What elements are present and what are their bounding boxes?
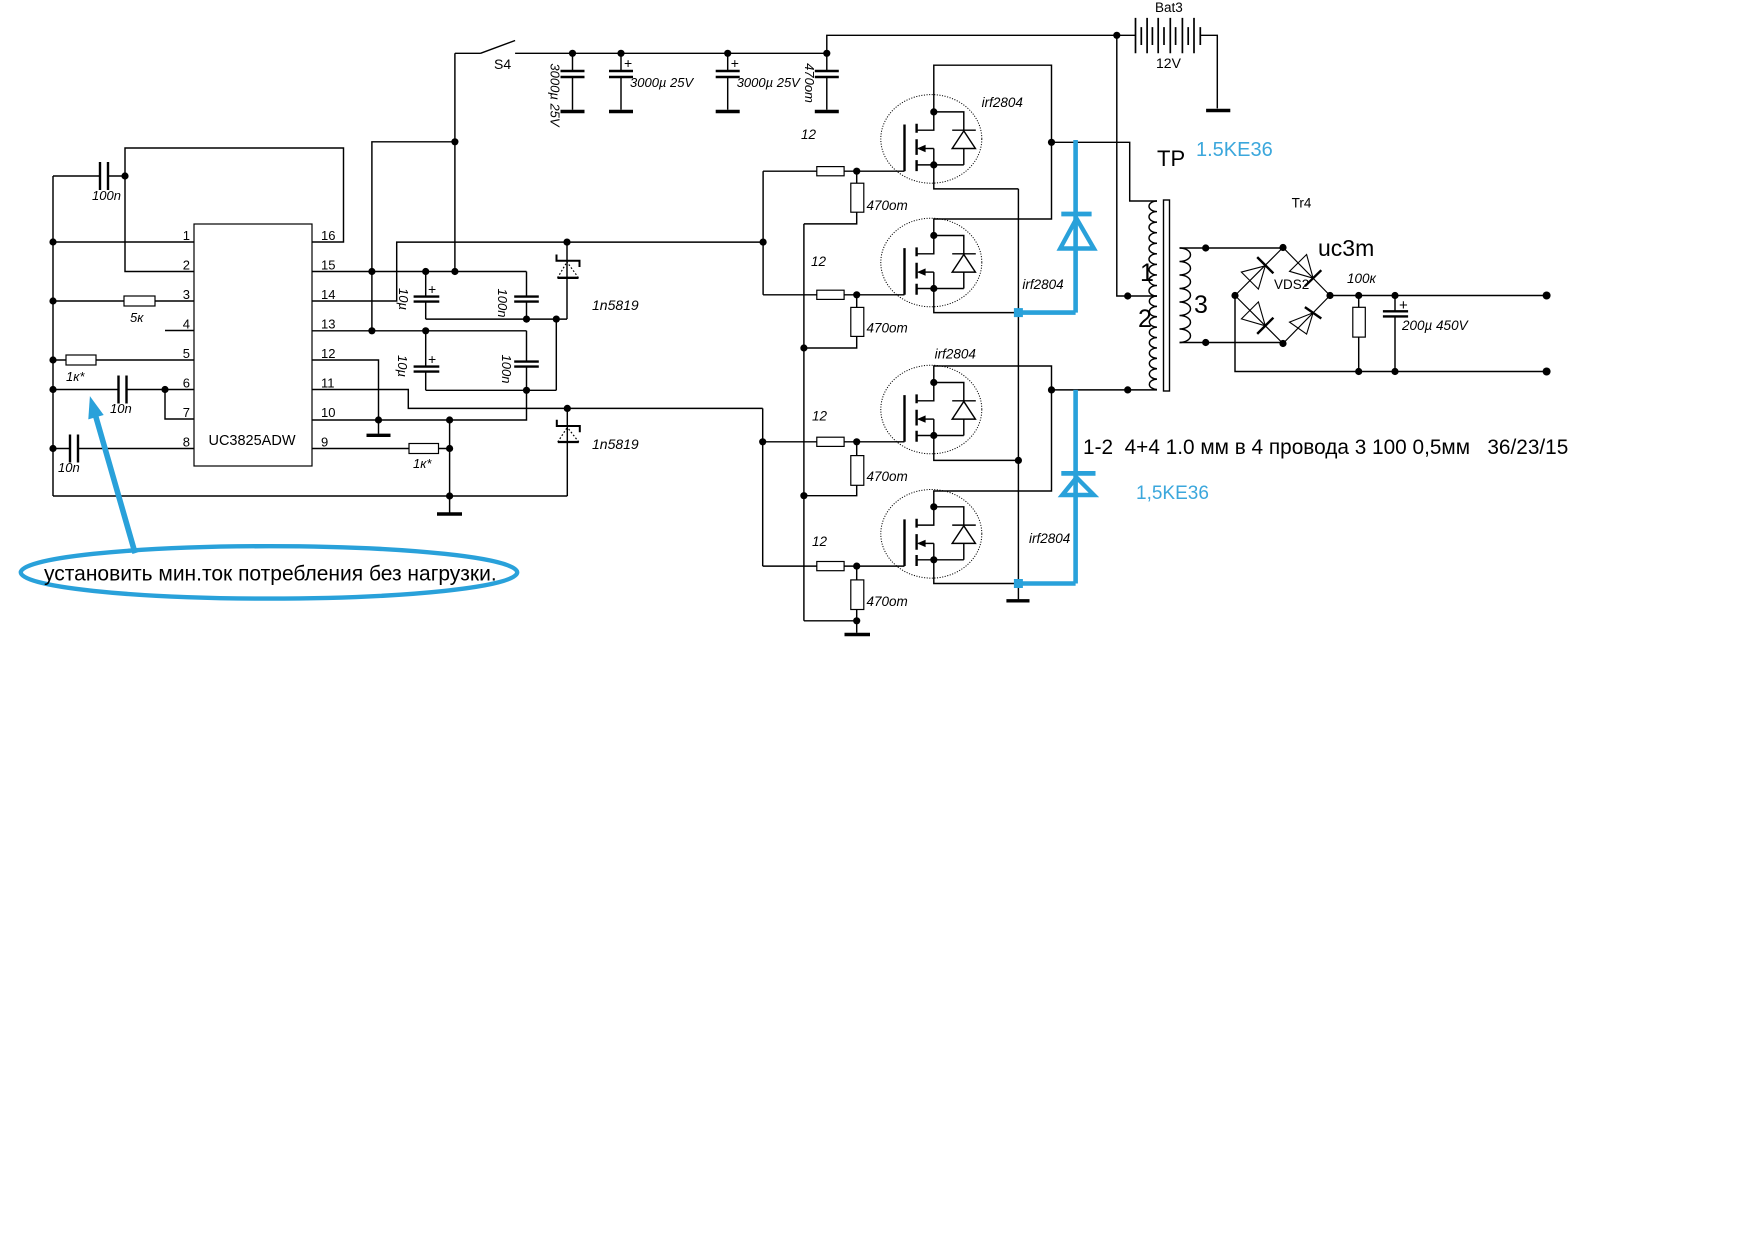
- transformer TP core: [1164, 200, 1170, 391]
- svg-text:Tr4: Tr4: [1292, 196, 1312, 211]
- svg-text:470om: 470om: [867, 469, 908, 484]
- svg-text:установить мин.ток потребления: установить мин.ток потребления без нагру…: [44, 563, 497, 586]
- node bus A at diode D1: [563, 239, 570, 246]
- wire Q2 source: [934, 289, 1019, 313]
- capacitor 100n bootstrap 2: [499, 331, 539, 391]
- svg-text:14: 14: [321, 287, 335, 302]
- node gate M1: [853, 168, 860, 175]
- wire gate bus B drop: [762, 408, 764, 566]
- wire bottom ground rail: [53, 495, 567, 497]
- node on left rail pin5: [49, 356, 56, 363]
- svg-text:12: 12: [812, 534, 828, 549]
- svg-text:VDS2: VDS2: [1274, 277, 1309, 292]
- wire pair2 bottom: [426, 389, 557, 391]
- op-amp U1 PWM controller UC3825ADW body: [194, 224, 312, 466]
- terminal minus: [1543, 368, 1551, 376]
- wire secondary bottom to bridge: [1180, 342, 1284, 344]
- node at 100n output: [121, 172, 128, 179]
- wire left rail: [52, 176, 54, 496]
- wire node A to Q2 drain: [934, 142, 1052, 235]
- svg-text:uc3m: uc3m: [1318, 235, 1374, 261]
- capacitor 200u 450V: [1383, 296, 1470, 372]
- resistor 1k* on pin 9: [312, 444, 450, 472]
- wire 12V top rail: [827, 35, 1136, 53]
- bridge diode bottom-left: [1241, 302, 1273, 334]
- svg-text:3: 3: [1194, 291, 1208, 319]
- TVS diode 1.5KE36 upper: [1060, 140, 1094, 313]
- svg-text:irf2804: irf2804: [1029, 531, 1070, 546]
- wire node B to primary winding 2: [1052, 389, 1158, 391]
- ground at cap1: [561, 110, 585, 113]
- node pair1 bottom 100n: [523, 316, 530, 323]
- svg-text:1к*: 1к*: [413, 456, 432, 471]
- svg-text:irf2804: irf2804: [982, 95, 1023, 110]
- wire Q3 source: [934, 436, 1019, 461]
- node bridge right: [1326, 292, 1333, 299]
- svg-text:12V: 12V: [1156, 55, 1182, 71]
- ground at battery: [1206, 109, 1230, 112]
- annotation ellipse blue: [21, 546, 517, 598]
- svg-text:2: 2: [1138, 305, 1152, 333]
- resistor 100k bleeder: [1347, 271, 1377, 372]
- node bridge top: [1279, 244, 1286, 251]
- svg-text:8: 8: [183, 435, 190, 450]
- node B drains Q3 Q4: [1048, 386, 1055, 393]
- wire pulldown bus: [803, 224, 805, 621]
- node center tap: [1124, 292, 1131, 299]
- svg-text:+: +: [428, 351, 436, 367]
- svg-text:TP: TP: [1157, 146, 1185, 171]
- node S4 rail cap1: [569, 50, 576, 57]
- TVS1 bottom wire: [1016, 310, 1076, 315]
- svg-text:1к*: 1к*: [66, 369, 85, 384]
- node pin15 10u: [422, 268, 429, 275]
- diode D1 1n5819: [557, 242, 639, 319]
- node plus 100k: [1355, 292, 1362, 299]
- transformer TP primary winding 2: [1149, 296, 1157, 390]
- wire pin 10: [312, 390, 527, 420]
- svg-text:UC3825ADW: UC3825ADW: [208, 433, 295, 449]
- node pin13 10u: [422, 327, 429, 334]
- svg-text:15: 15: [321, 258, 335, 273]
- svg-text:irf2804: irf2804: [1022, 277, 1063, 292]
- transistor Q4 irf2804: [881, 490, 982, 579]
- resistor 470om pulldown 4: [851, 566, 908, 621]
- bridge diode bottom-right: [1290, 307, 1322, 334]
- transistor Q1 irf2804: [881, 95, 982, 184]
- wire bridge plus rail: [1330, 295, 1547, 297]
- node gate bus B: [759, 438, 766, 445]
- node plus cap: [1391, 292, 1398, 299]
- wire link pair1-pair2: [555, 319, 557, 390]
- svg-text:1: 1: [1140, 259, 1154, 287]
- svg-text:100к: 100к: [1347, 271, 1377, 286]
- node secondary bottom: [1202, 339, 1209, 346]
- transistor Q3 irf2804: [881, 365, 982, 454]
- resistor 470om pulldown 1: [804, 171, 908, 224]
- svg-text:10: 10: [321, 405, 335, 420]
- svg-text:+: +: [731, 55, 739, 71]
- svg-text:3000µ 25V: 3000µ 25V: [548, 63, 563, 127]
- node on left rail pin3: [49, 297, 56, 304]
- node pulldown ground: [853, 617, 860, 624]
- wire pin 12: [312, 360, 379, 420]
- svg-text:1n5819: 1n5819: [592, 436, 639, 452]
- node gate M4: [853, 563, 860, 570]
- wire gate bus A drop: [762, 171, 764, 295]
- svg-text:100n: 100n: [495, 289, 510, 318]
- node pin10/1k*: [446, 416, 453, 423]
- svg-text:12: 12: [812, 409, 828, 424]
- resistor 12 gate M1: [763, 127, 904, 176]
- svg-text:5к: 5к: [130, 310, 144, 325]
- svg-text:470om: 470om: [867, 321, 908, 336]
- node source bus Q3: [1015, 457, 1022, 464]
- wire pin9 node to pin10 line and ground rail: [449, 420, 451, 496]
- diode bridge VDS2 frame: [1235, 248, 1330, 344]
- svg-text:+: +: [428, 281, 436, 297]
- svg-text:100n: 100n: [92, 188, 121, 203]
- ground at cap3: [716, 110, 740, 113]
- capacitor 100n bootstrap 1: [495, 272, 539, 320]
- svg-text:9: 9: [321, 435, 328, 450]
- node A drains Q1 Q2: [1048, 139, 1055, 146]
- svg-text:1.5KE36: 1.5KE36: [1196, 139, 1273, 161]
- node bottom rail: [446, 492, 453, 499]
- svg-text:10µ: 10µ: [395, 355, 410, 377]
- resistor 1k* on pin 5: [53, 355, 194, 384]
- node S4 rail cap2: [617, 50, 624, 57]
- wire secondary top to bridge: [1180, 247, 1284, 249]
- svg-text:+: +: [1399, 297, 1408, 314]
- wire Q4 source: [934, 560, 1019, 584]
- resistor 5k on pin 3: [53, 296, 194, 325]
- svg-text:1-2 4+4 1.0 мм в 4 провода 3: 1-2 4+4 1.0 мм в 4 провода 3 100 0,5мм 3…: [1083, 436, 1568, 459]
- switch S4: [455, 41, 827, 73]
- wire battery center tap: [1117, 35, 1157, 296]
- ground at pin12: [367, 420, 391, 435]
- node pin9 resistor right: [446, 445, 453, 452]
- wire Q1 source to source bus: [934, 165, 1019, 189]
- wire link to x372 column: [372, 142, 455, 331]
- wire S4 drop: [454, 53, 456, 271]
- svg-text:irf2804: irf2804: [935, 347, 976, 362]
- node on left rail pin8: [49, 445, 56, 452]
- wire pin 15: [312, 271, 527, 273]
- ground at cap4: [815, 110, 839, 113]
- svg-text:16: 16: [321, 228, 335, 243]
- wire pin 13: [312, 330, 527, 332]
- terminal plus: [1543, 292, 1551, 300]
- TVS diode 1,5KE36 lower: [1061, 390, 1095, 584]
- capacitor 10u bootstrap 1: [396, 272, 439, 320]
- wire pin 14 to gate bus A: [312, 242, 763, 301]
- capacitor 470om snubber: [802, 53, 839, 110]
- resistor 12 gate M2: [763, 254, 904, 299]
- node pair2 bottom 100n: [523, 387, 530, 394]
- TVS2 bottom wire: [1016, 581, 1076, 586]
- node OUT-B at TVS diode: [564, 405, 571, 412]
- node bridge bottom: [1279, 340, 1286, 347]
- ground at pulldown bus: [845, 621, 871, 635]
- node S4 rail cap3: [724, 50, 731, 57]
- svg-text:4: 4: [183, 317, 190, 332]
- svg-text:3: 3: [183, 287, 190, 302]
- wire source bus: [1017, 189, 1019, 599]
- capacitor 3000u 25V no.2: [609, 53, 694, 110]
- node TVS2 source bus: [1014, 579, 1023, 588]
- node gate M2: [853, 291, 860, 298]
- svg-text:3000µ 25V: 3000µ 25V: [737, 75, 801, 90]
- wire node B to Q4 drain: [934, 390, 1052, 507]
- wire bridge minus rail: [1235, 296, 1547, 372]
- svg-text:S4: S4: [494, 56, 511, 72]
- svg-text:10n: 10n: [110, 401, 132, 416]
- transformer TP secondary winding 3: [1180, 248, 1191, 343]
- wire pin 7: [165, 390, 194, 420]
- wire pin 1: [53, 241, 194, 243]
- node pulldown bus 2: [800, 344, 807, 351]
- svg-text:10n: 10n: [58, 460, 80, 475]
- wire Q1 drain loop to node A: [934, 65, 1052, 142]
- node S4 rail corner: [823, 50, 830, 57]
- node TVS1 source bus: [1014, 308, 1023, 317]
- annotation arrow blue: [88, 396, 135, 553]
- capacitor 3000u 25V no.3: [716, 53, 801, 110]
- transformer TP primary winding 1: [1149, 201, 1157, 296]
- node pair1 bottom link: [553, 316, 560, 323]
- node on left rail pin6: [49, 386, 56, 393]
- bridge diode top-left: [1241, 257, 1273, 289]
- node secondary top: [1202, 244, 1209, 251]
- node bridge left: [1231, 292, 1238, 299]
- wire pulldown bus end: [804, 620, 857, 622]
- node pin10/pin12: [375, 416, 382, 423]
- node pin15 x372: [368, 268, 375, 275]
- svg-text:5: 5: [183, 346, 190, 361]
- node pin13 x372: [368, 327, 375, 334]
- svg-text:13: 13: [321, 317, 335, 332]
- svg-text:+: +: [624, 55, 632, 71]
- node minus cap: [1391, 368, 1398, 375]
- node on left rail pin1: [49, 238, 56, 245]
- svg-text:7: 7: [183, 405, 190, 420]
- svg-text:470om: 470om: [802, 63, 817, 103]
- wire feedback loop pin2 to pin16: [125, 148, 344, 272]
- node gate M3: [853, 438, 860, 445]
- capacitor 10n on pin 6: [53, 376, 194, 417]
- svg-text:1n5819: 1n5819: [592, 297, 639, 313]
- svg-text:12: 12: [321, 346, 335, 361]
- capacitor 10n on pin 8: [53, 435, 194, 476]
- svg-text:Bat3: Bat3: [1155, 0, 1183, 15]
- resistor 470om pulldown 3: [804, 442, 908, 496]
- svg-text:12: 12: [801, 127, 817, 142]
- node battery tap: [1113, 32, 1120, 39]
- svg-text:11: 11: [321, 376, 335, 391]
- node winding2 bottom: [1124, 386, 1131, 393]
- node pin6/pin7 junction: [161, 386, 168, 393]
- transistor Q2 irf2804: [881, 218, 982, 307]
- ground at bottom rail: [437, 496, 462, 514]
- ground at cap2: [609, 110, 633, 113]
- svg-text:1: 1: [183, 228, 190, 243]
- node gate bus A: [760, 239, 767, 246]
- svg-text:3000µ 25V: 3000µ 25V: [630, 75, 694, 90]
- wire battery minus to ground: [1200, 35, 1217, 108]
- svg-text:1,5KE36: 1,5KE36: [1136, 483, 1209, 504]
- svg-text:2: 2: [183, 258, 190, 273]
- node pin15 S4: [451, 268, 458, 275]
- capacitor 3000u 25V no.1: [548, 53, 585, 128]
- resistor 470om pulldown 2: [804, 295, 908, 348]
- resistor 12 gate M3: [763, 409, 905, 447]
- ground at source bus: [1006, 599, 1029, 602]
- battery Bat3 12V: [1136, 0, 1201, 71]
- wire pin 4 stub: [165, 330, 194, 332]
- svg-text:470om: 470om: [867, 594, 908, 609]
- bridge diode top-right: [1290, 255, 1322, 287]
- wire Q3 drain loop to node B: [934, 366, 1052, 390]
- wire pair1 bottom: [426, 318, 567, 320]
- svg-text:12: 12: [811, 254, 827, 269]
- svg-text:100n: 100n: [499, 355, 514, 384]
- svg-text:10µ: 10µ: [396, 288, 411, 310]
- node minus 100k: [1355, 368, 1362, 375]
- wire pin 11 to OUT-B bus: [312, 390, 763, 409]
- diode D2 1n5819: [557, 408, 639, 496]
- svg-text:200µ 450V: 200µ 450V: [1401, 318, 1470, 333]
- capacitor 100n top-left: [53, 162, 125, 203]
- svg-text:6: 6: [183, 376, 190, 391]
- resistor 12 gate M4: [763, 534, 905, 571]
- node S4 drop link: [451, 138, 458, 145]
- wire node A to primary winding 1: [1052, 142, 1158, 201]
- capacitor 10u bootstrap 2: [395, 331, 439, 391]
- node pulldown bus 3: [800, 492, 807, 499]
- svg-text:470om: 470om: [867, 198, 908, 213]
